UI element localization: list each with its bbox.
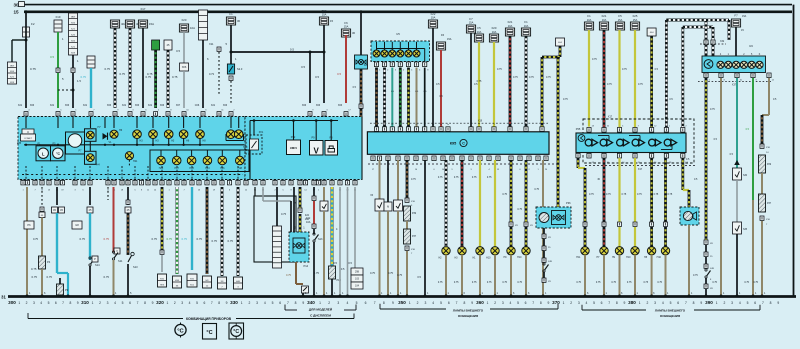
switch S2.3 <box>227 64 234 74</box>
svg-text:L: L <box>42 151 45 156</box>
svg-text:X06: X06 <box>223 104 228 107</box>
wire green U6-4 <box>752 78 754 200</box>
resistor P10 <box>329 266 336 279</box>
resistor P39 <box>404 206 411 221</box>
svg-text:P37: P37 <box>412 236 417 238</box>
lamp H10 <box>631 247 639 255</box>
svg-text:X06: X06 <box>302 104 307 107</box>
switch S13 <box>131 252 134 255</box>
svg-text:4: 4 <box>264 301 266 305</box>
svg-text:С ДИСПЛЕЕМ: С ДИСПЛЕЕМ <box>310 314 331 318</box>
svg-text:15A: 15A <box>633 18 638 22</box>
svg-text:9: 9 <box>700 301 702 305</box>
svg-text:COMET: COMET <box>24 138 33 140</box>
svg-text:7: 7 <box>762 301 764 305</box>
wire gray 2 <box>347 187 349 296</box>
svg-text:15A: 15A <box>344 25 349 29</box>
svg-text:0.75: 0.75 <box>472 176 477 179</box>
wire U5 tan <box>416 68 418 127</box>
svg-text:6: 6 <box>601 301 603 305</box>
wire black F7 <box>470 33 472 127</box>
wire P4 branch <box>41 187 43 207</box>
svg-text:7: 7 <box>62 301 64 305</box>
wire gray 3 to box <box>354 187 356 268</box>
wire dashed <box>230 81 232 103</box>
svg-text:0.75: 0.75 <box>454 281 459 284</box>
wire U5 gb <box>399 68 402 127</box>
svg-text:0.75: 0.75 <box>643 281 648 284</box>
svg-text:X25: X25 <box>364 64 369 67</box>
svg-text:10A: 10A <box>190 26 195 30</box>
svg-text:0.75: 0.75 <box>281 212 287 216</box>
wire black <box>323 25 325 103</box>
svg-text:ЛАМПЫ ВНЕШНЕГО: ЛАМПЫ ВНЕШНЕГО <box>655 308 686 312</box>
wire green <box>57 73 59 108</box>
svg-text:3: 3 <box>502 301 504 305</box>
svg-text:P21: P21 <box>259 131 264 134</box>
connector X06 <box>180 63 189 71</box>
svg-text:U: U <box>27 130 29 134</box>
icon thermometer box <box>203 324 217 340</box>
svg-text:0.75: 0.75 <box>80 237 86 241</box>
wire V column 2 <box>397 160 399 200</box>
lamp U5 pin 5 <box>408 42 410 50</box>
svg-text:300: 300 <box>8 300 16 305</box>
svg-text:0.5: 0.5 <box>315 75 319 79</box>
wire U5 bnb <box>375 68 378 127</box>
lamp H10 <box>491 247 499 255</box>
svg-text:9: 9 <box>777 301 779 305</box>
svg-text:P35: P35 <box>17 142 22 145</box>
svg-text:P39: P39 <box>412 213 417 215</box>
svg-text:1: 1 <box>241 301 243 305</box>
wire bw route outer <box>666 19 729 22</box>
svg-text:0.75: 0.75 <box>657 281 662 284</box>
svg-text:H11: H11 <box>576 256 581 259</box>
lamp U5 pin 1 <box>376 42 378 50</box>
lamp H3 <box>164 130 173 139</box>
svg-text:4: 4 <box>432 301 434 305</box>
svg-text:3: 3 <box>107 301 109 305</box>
svg-text:8: 8 <box>540 301 542 305</box>
svg-text:X06: X06 <box>107 104 112 107</box>
headlamp L4 <box>632 139 639 146</box>
svg-text:0.5: 0.5 <box>348 261 352 265</box>
fuse F2 <box>25 10 28 13</box>
svg-text:10A: 10A <box>306 221 311 224</box>
gauge P5 temperature <box>51 146 66 161</box>
svg-text:0.5: 0.5 <box>474 83 478 86</box>
svg-text:X21: X21 <box>211 104 216 107</box>
wire by bend <box>559 46 562 57</box>
svg-text:H10: H10 <box>657 256 662 259</box>
wire cluster right bus <box>250 120 338 122</box>
wire H8 upper <box>650 158 653 222</box>
wire gray 1 <box>339 187 341 296</box>
svg-text:10A: 10A <box>492 30 497 34</box>
wire yellow F20 <box>493 42 495 127</box>
svg-text:0.75: 0.75 <box>487 281 492 284</box>
svg-text:390: 390 <box>705 300 713 305</box>
connector row lamp block bottom <box>587 153 591 158</box>
svg-text:0.75: 0.75 <box>576 281 581 284</box>
connector row X25 below U5 <box>374 62 378 67</box>
wire thick tan to ground <box>542 160 544 296</box>
connector X06 <box>229 76 233 80</box>
svg-text:10A: 10A <box>602 18 607 22</box>
svg-text:3: 3 <box>731 301 733 305</box>
wire tan/yellow column H <box>161 187 164 252</box>
svg-text:6: 6 <box>129 301 131 305</box>
svg-text:ЭБУ: ЭБУ <box>71 17 76 19</box>
svg-text:0.75: 0.75 <box>654 193 659 196</box>
svg-text:5: 5 <box>272 301 274 305</box>
svg-text:6: 6 <box>55 301 57 305</box>
svg-text:X06: X06 <box>182 65 187 69</box>
svg-text:1: 1 <box>487 301 489 305</box>
svg-text:F1: F1 <box>587 14 591 18</box>
wire H10 upper <box>494 160 496 247</box>
wire bw stubs into U6 <box>705 20 708 40</box>
wire bw column 2 <box>237 187 240 276</box>
wire by bend to horn <box>681 158 684 190</box>
svg-text:ОСВЕЩЕНИЯ: ОСВЕЩЕНИЯ <box>458 314 478 318</box>
svg-text:X21: X21 <box>122 104 127 107</box>
svg-text:1: 1 <box>716 301 718 305</box>
wire yellow F5 <box>478 42 480 127</box>
svg-text:6: 6 <box>203 301 205 305</box>
svg-text:8: 8 <box>463 301 465 305</box>
lamp U5 pin 3 <box>391 42 393 50</box>
wire H3 upper <box>461 160 464 247</box>
wire right border <box>793 5 795 297</box>
svg-text:0.5: 0.5 <box>341 267 345 271</box>
wire H8 ground <box>651 255 653 296</box>
connector 45 boxes row <box>24 221 34 229</box>
svg-text:0.75: 0.75 <box>397 274 402 277</box>
svg-text:X21: X21 <box>83 104 88 107</box>
svg-text:10A: 10A <box>524 24 529 28</box>
wire tan chain ground <box>761 221 763 296</box>
svg-text:10A: 10A <box>508 24 513 28</box>
svg-text:X06: X06 <box>30 104 35 107</box>
wire black <box>230 25 232 52</box>
connector stack X29 <box>276 187 278 226</box>
wire black <box>72 55 74 68</box>
svg-text:4: 4 <box>189 301 191 305</box>
svg-text:104: 104 <box>355 285 360 288</box>
svg-text:0.75: 0.75 <box>534 188 539 191</box>
svg-text:P6: P6 <box>27 223 31 227</box>
svg-text:1и: 1и <box>383 124 385 126</box>
svg-text:P29: P29 <box>767 164 772 166</box>
svg-text:4: 4 <box>346 301 348 305</box>
svg-text:0.75: 0.75 <box>638 83 643 86</box>
svg-text:0.75: 0.75 <box>589 193 594 196</box>
svg-text:°C: °C <box>233 329 239 335</box>
svg-text:320: 320 <box>156 300 164 305</box>
svg-text:F19: F19 <box>56 15 61 19</box>
svg-text:H25: H25 <box>159 167 164 170</box>
svg-text:0.75: 0.75 <box>31 267 37 271</box>
wire H1 upper <box>479 160 481 247</box>
svg-text:ЭБУ: ЭБУ <box>10 66 15 68</box>
svg-text:3: 3 <box>256 301 258 305</box>
svg-text:0.75: 0.75 <box>388 271 394 275</box>
connector 404b <box>647 28 656 36</box>
wire by 404b <box>650 36 653 127</box>
svg-text:0.5: 0.5 <box>337 72 341 76</box>
wire black 0.5 <box>424 160 426 296</box>
wire green/black <box>154 50 157 108</box>
svg-text:10A: 10A <box>431 16 436 20</box>
wire green K30 <box>57 32 59 68</box>
wire black/white <box>114 28 117 108</box>
wire black F22 <box>432 28 434 127</box>
wire black/white <box>167 50 170 108</box>
svg-text:X17: X17 <box>638 168 643 171</box>
wire cluster lower dashes <box>22 174 243 176</box>
svg-text:0.75: 0.75 <box>517 208 522 211</box>
lamp U5 pin 2 <box>384 42 386 50</box>
svg-text:H10: H10 <box>626 256 631 259</box>
svg-text:4: 4 <box>40 301 42 305</box>
svg-text:0.5: 0.5 <box>50 55 54 59</box>
lamp H3 <box>458 247 466 255</box>
svg-text:9: 9 <box>226 301 228 305</box>
connector on 30 bus <box>19 2 25 7</box>
headlamp L3 <box>617 139 624 146</box>
wire tan U6-5 chain <box>768 78 770 115</box>
svg-text:0.75: 0.75 <box>693 274 698 277</box>
display U COMET <box>22 129 34 134</box>
svg-text:0.75: 0.75 <box>607 83 612 86</box>
svg-text:0.75: 0.75 <box>81 75 87 79</box>
icon thermometer circle <box>180 323 182 338</box>
svg-text:2: 2 <box>328 301 330 305</box>
lamp H17 <box>172 156 181 165</box>
wire teal U6-3 with switches <box>736 78 738 168</box>
svg-text:9: 9 <box>471 301 473 305</box>
wire H7 ground <box>603 255 605 296</box>
lamp H10 <box>661 247 669 255</box>
svg-text:2: 2 <box>26 301 28 305</box>
svg-text:0.75: 0.75 <box>497 68 502 71</box>
svg-text:0.75: 0.75 <box>710 108 715 111</box>
svg-text:0.5: 0.5 <box>436 83 440 86</box>
lamp H11 <box>581 247 589 255</box>
svg-text:C06: C06 <box>195 104 200 107</box>
svg-text:0.75: 0.75 <box>472 281 477 284</box>
wire H10b by w/ pin <box>525 160 528 222</box>
svg-text:7: 7 <box>685 301 687 305</box>
lamp H21 <box>125 152 133 160</box>
svg-text:°C: °C <box>56 152 60 156</box>
connector row lamp block top <box>587 128 591 133</box>
fuse F4 <box>110 20 119 28</box>
svg-text:F22: F22 <box>305 214 310 217</box>
module P14 <box>289 232 309 262</box>
headlamp L5 <box>649 139 656 146</box>
wire yellow F1c <box>588 30 590 127</box>
svg-text:0.75: 0.75 <box>172 75 178 79</box>
svg-text:H21: H21 <box>133 160 138 163</box>
lamp H25 <box>157 156 166 165</box>
svg-text:360: 360 <box>476 300 484 305</box>
speedometer P7 <box>66 132 85 154</box>
svg-text:30: 30 <box>237 19 241 23</box>
svg-text:C: C <box>462 142 465 146</box>
svg-text:4: 4 <box>739 301 741 305</box>
wire red F6 <box>440 50 442 127</box>
wire cyan column <box>191 187 193 270</box>
wire H2 upper <box>445 160 448 247</box>
connector row K95 bottom <box>371 156 375 161</box>
instrument cluster P block <box>18 117 245 180</box>
svg-text:15A: 15A <box>618 18 623 22</box>
svg-text:310: 310 <box>81 300 89 305</box>
wire X6 column <box>387 160 389 202</box>
connector X61 <box>87 56 95 68</box>
svg-text:X21: X21 <box>18 104 23 107</box>
lamp H8 <box>647 247 655 255</box>
wire stub dashed <box>107 187 109 200</box>
svg-text:5: 5 <box>356 301 358 305</box>
svg-text:H30: H30 <box>243 146 248 149</box>
svg-text:15A: 15A <box>149 22 154 26</box>
svg-text:7: 7 <box>211 301 213 305</box>
svg-text:F22: F22 <box>431 12 436 16</box>
svg-text:30: 30 <box>352 31 356 35</box>
wire rb F21c <box>603 30 606 127</box>
connector row K95 top <box>374 127 378 132</box>
svg-text:1в: 1в <box>407 124 409 126</box>
wire S11 column red <box>113 187 115 252</box>
svg-text:10A: 10A <box>322 13 327 17</box>
svg-text:0.75: 0.75 <box>105 67 111 71</box>
switch S13b <box>313 229 315 234</box>
svg-text:H43: H43 <box>205 167 210 170</box>
lamp H1 <box>476 247 484 255</box>
svg-text:5: 5 <box>440 301 442 305</box>
svg-text:0.75: 0.75 <box>30 67 36 71</box>
wire H3 ground <box>461 255 463 296</box>
wire H7 upper <box>603 158 606 222</box>
svg-text:10A: 10A <box>305 218 310 221</box>
svg-text:3: 3 <box>181 301 183 305</box>
svg-text:0.73: 0.73 <box>209 72 215 76</box>
svg-text:0.75: 0.75 <box>517 281 522 284</box>
wire sensor chain P39 <box>406 160 409 198</box>
relay module K95 <box>367 132 549 155</box>
wire black F7c <box>735 27 737 56</box>
svg-text:0.75: 0.75 <box>197 237 203 241</box>
lamp H8 <box>196 130 205 139</box>
svg-text:P35: P35 <box>576 127 581 131</box>
svg-text:10A: 10A <box>587 18 592 22</box>
svg-text:0.75: 0.75 <box>744 281 749 284</box>
svg-text:0.5: 0.5 <box>176 49 180 53</box>
connector X22 green <box>152 40 160 50</box>
svg-text:5: 5 <box>122 301 124 305</box>
svg-text:0.75: 0.75 <box>596 281 601 284</box>
wire V column 1 <box>379 160 381 199</box>
wire tan column V <box>323 187 325 201</box>
svg-text:15A: 15A <box>469 21 474 25</box>
connector row X37 below U6 <box>704 73 708 78</box>
wire gray link <box>262 187 264 201</box>
svg-text:0.75: 0.75 <box>637 193 642 196</box>
lamp H3 <box>149 130 158 139</box>
svg-text:5: 5 <box>747 301 749 305</box>
resistor P29 <box>759 155 766 173</box>
wire bw column <box>221 187 224 276</box>
svg-text:ЛАМПЫ ВНЕШНЕГО: ЛАМПЫ ВНЕШНЕГО <box>453 308 484 312</box>
lamp H43 <box>203 156 212 165</box>
wire P14 ground <box>295 262 297 284</box>
wire H9 by w/ pin <box>510 160 513 222</box>
svg-text:ДЛЯ МОДЕЛЕЙ: ДЛЯ МОДЕЛЕЙ <box>309 308 333 312</box>
svg-text:К95: К95 <box>450 142 457 146</box>
svg-text:2: 2 <box>570 301 572 305</box>
wire black <box>142 28 144 108</box>
svg-text:F5: F5 <box>477 26 481 30</box>
svg-text:103: 103 <box>355 278 360 281</box>
svg-text:2: 2 <box>174 301 176 305</box>
lamp U5 pin 6 <box>416 42 418 50</box>
svg-text:X32: X32 <box>720 40 725 43</box>
svg-text:0.75: 0.75 <box>529 76 534 79</box>
wire horizontal 0.5 <box>230 51 233 54</box>
headlamp L1 <box>585 139 592 146</box>
svg-text:10A: 10A <box>477 30 482 34</box>
wire brown striped to cluster <box>360 69 363 104</box>
svg-text:ПЛЗ: ПЛЗ <box>160 285 165 287</box>
connector K20 stack <box>69 13 78 55</box>
svg-text:ОСВЕЩЕНИЯ: ОСВЕЩЕНИЯ <box>660 314 680 318</box>
svg-text:F17: F17 <box>141 7 146 11</box>
dashed X06 row below K95 <box>368 163 560 165</box>
svg-text:15A: 15A <box>742 15 747 18</box>
svg-text:3: 3 <box>578 301 580 305</box>
wire H10 upper <box>664 158 667 222</box>
wire lamp block internal <box>598 135 609 137</box>
lamp H2 <box>442 247 450 255</box>
switch S1 ignition <box>360 10 363 13</box>
svg-text:0.75: 0.75 <box>370 271 376 275</box>
svg-text:330: 330 <box>230 300 238 305</box>
connector X23 <box>164 40 172 50</box>
wire sensor chain left <box>705 78 708 240</box>
relay K10 outline <box>254 196 296 262</box>
svg-text:0.75: 0.75 <box>606 193 611 196</box>
lamp H6 <box>110 130 118 138</box>
svg-text:8: 8 <box>69 301 71 305</box>
svg-text:S35: S35 <box>743 229 748 231</box>
wire red <box>345 35 347 103</box>
svg-text:P9: P9 <box>65 288 69 292</box>
svg-text:H10: H10 <box>486 256 491 259</box>
svg-text:0.75: 0.75 <box>411 178 416 181</box>
svg-text:P: P <box>94 257 96 261</box>
svg-text:7: 7 <box>532 301 534 305</box>
svg-text:0.75: 0.75 <box>563 98 568 101</box>
wire red/black F21 <box>509 36 512 127</box>
svg-text:9: 9 <box>392 301 394 305</box>
connector X32 pins <box>704 40 708 45</box>
lamp H7 <box>600 247 608 255</box>
svg-text:7: 7 <box>287 301 289 305</box>
